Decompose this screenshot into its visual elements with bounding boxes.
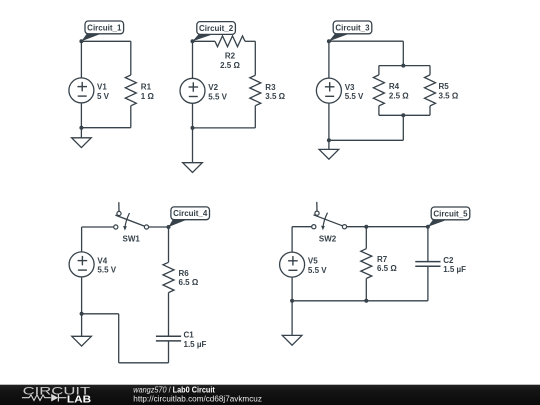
junction dot c2 bottom [191,126,195,130]
wire c4 bottom horizontal [119,362,169,364]
svg-text:5.5 V: 5.5 V [208,92,227,101]
resistor R5 [425,66,436,116]
wire c1 top rail [81,40,130,42]
ground c4 [72,314,92,346]
voltage source V4 [69,252,94,277]
wire c4 left lower [81,277,83,314]
svg-text:Circuit_2: Circuit_2 [199,24,234,33]
resistor R3 [250,41,261,128]
wire c3 parallel box top [379,65,430,67]
value label R4 2.5 Ω [389,82,409,100]
wire c3 left lower [328,103,330,140]
node flag Circuit_5 [428,207,470,227]
svg-text:LAB: LAB [67,395,91,405]
svg-text:3.5 Ω: 3.5 Ω [265,92,285,101]
wire c1 left upper [80,41,82,78]
junction dot c3 top-left [327,39,331,43]
wire c4 to ground node [82,313,119,315]
junction dot c5 R7 top [364,225,368,229]
junction dot c5 bottom left [290,299,294,303]
capacitor C2 [427,227,429,262]
svg-text:R2: R2 [225,52,236,61]
ground c5 [282,301,302,345]
wire c3 mid vertical lower [402,115,404,140]
svg-text:5.5 V: 5.5 V [308,266,327,275]
wire c2 bottom rail [193,127,256,129]
voltage source V2 [180,78,205,103]
svg-text:R7: R7 [377,255,388,264]
CircuitLab logo resistor-diode glyph [22,394,66,402]
wire c2 top left lead [193,40,216,42]
resistor R4 [373,66,384,116]
voltage source V3 [316,78,341,103]
svg-text:1.5 µF: 1.5 µF [443,265,466,274]
svg-text:V5: V5 [308,257,318,266]
wire c5 top right [366,226,428,228]
svg-text:3.5 Ω: 3.5 Ω [439,91,459,100]
svg-text:Circuit_3: Circuit_3 [335,23,370,32]
value label R5 3.5 Ω [439,82,459,100]
svg-text:R6: R6 [179,269,190,278]
wire c5 below C2 [427,266,429,301]
wire c5 left lower [291,277,293,301]
svg-text:6.5 Ω: 6.5 Ω [377,264,397,273]
value label V5 5.5 V [308,257,327,275]
svg-text:5 V: 5 V [97,92,110,101]
svg-text:6.5 Ω: 6.5 Ω [179,278,199,287]
value label C1 1.5 µF [184,331,207,349]
svg-text:Circuit_4: Circuit_4 [173,209,208,218]
wire c4 bottom vertical [118,314,120,363]
resistor R6 [163,227,174,336]
junction dot c1 bottom [79,126,83,130]
svg-text:V1: V1 [97,83,107,92]
wire c2 top right lead [245,40,255,42]
svg-text:5.5 V: 5.5 V [345,92,364,101]
svg-text:SW2: SW2 [319,234,337,243]
wire c3 bottom rail [329,139,403,141]
junction dot c2 top [191,39,195,43]
svg-text:R4: R4 [389,82,400,91]
svg-text:C1: C1 [184,331,195,340]
switch SW1 [114,202,149,230]
junction dot c5 C2 top [426,225,430,229]
wire c4 left upper [81,227,83,252]
voltage source V5 [280,252,305,277]
ground c3 [319,140,339,159]
junction dot c4 ground node [80,312,84,316]
svg-text:http://circuitlab.com/cd68j7av: http://circuitlab.com/cd68j7avkmcuz [133,394,262,404]
node flag Circuit_3 [329,21,372,41]
svg-text:Circuit_1: Circuit_1 [87,23,122,32]
node flag Circuit_4 [169,207,210,227]
wire c3 parallel box bottom [379,114,430,116]
junction dot c5 R7 bottom [364,299,368,303]
value label R1 1 Ω [141,83,155,101]
junction dot c4 top [167,225,171,229]
value label R6 6.5 Ω [179,269,199,287]
wire c5 left upper [291,227,293,253]
voltage source V1 [69,78,94,103]
svg-text:2.5 Ω: 2.5 Ω [220,61,240,70]
capacitor C1 [156,336,181,341]
junction dot c1 top [79,39,83,43]
resistor R1 [125,41,136,127]
value label R2 2.5 Ω [220,52,240,70]
wire c3 top rail [329,40,403,42]
wire c2 left lower [192,103,194,128]
wire c3 left upper [328,41,330,78]
value label V1 5 V [97,83,110,101]
ground c1 [72,128,92,148]
value label V2 5.5 V [208,83,227,101]
switch SW2 [312,202,347,230]
ground c2 [183,128,203,173]
svg-text:SW1: SW1 [123,235,141,244]
svg-text:5.5 V: 5.5 V [97,266,116,275]
svg-text:C2: C2 [443,256,454,265]
svg-text:R1: R1 [141,83,152,92]
wire c4 below C1 [168,341,170,363]
svg-text:Circuit_5: Circuit_5 [433,209,468,218]
value label V3 5.5 V [345,83,364,101]
svg-text:V3: V3 [345,83,355,92]
value label R7 6.5 Ω [377,255,397,273]
resistor R7 [361,227,372,301]
wire c5 bottom rail [292,300,428,302]
junction dot c3 box bottom [401,113,405,117]
svg-text:V2: V2 [208,83,218,92]
svg-text:1.5 µF: 1.5 µF [184,340,207,349]
wire c5 top left lead [292,226,312,228]
svg-text:2.5 Ω: 2.5 Ω [389,91,409,100]
wire c4 top left lead [82,226,114,228]
junction dot c3 bottom-left [327,138,331,142]
wire c1 bottom rail [81,127,130,129]
node flag Circuit_2 [193,22,236,42]
junction dot c3 box top [401,64,405,68]
wire c3 mid vertical upper [402,41,404,65]
svg-text:1 Ω: 1 Ω [141,92,155,101]
svg-text:V4: V4 [97,256,107,265]
value label V4 5.5 V [97,256,116,274]
wire c4 top right lead [149,226,169,228]
svg-text:R3: R3 [265,83,276,92]
wire c1 left lower [80,103,82,128]
value label R3 3.5 Ω [265,83,285,101]
svg-text:R5: R5 [439,82,450,91]
wire c5 top middle [347,226,367,228]
wire c2 left upper [192,41,194,78]
node flag Circuit_1 [81,21,123,41]
resistor R2 [215,36,245,47]
value label C2 1.5 µF [443,256,466,274]
